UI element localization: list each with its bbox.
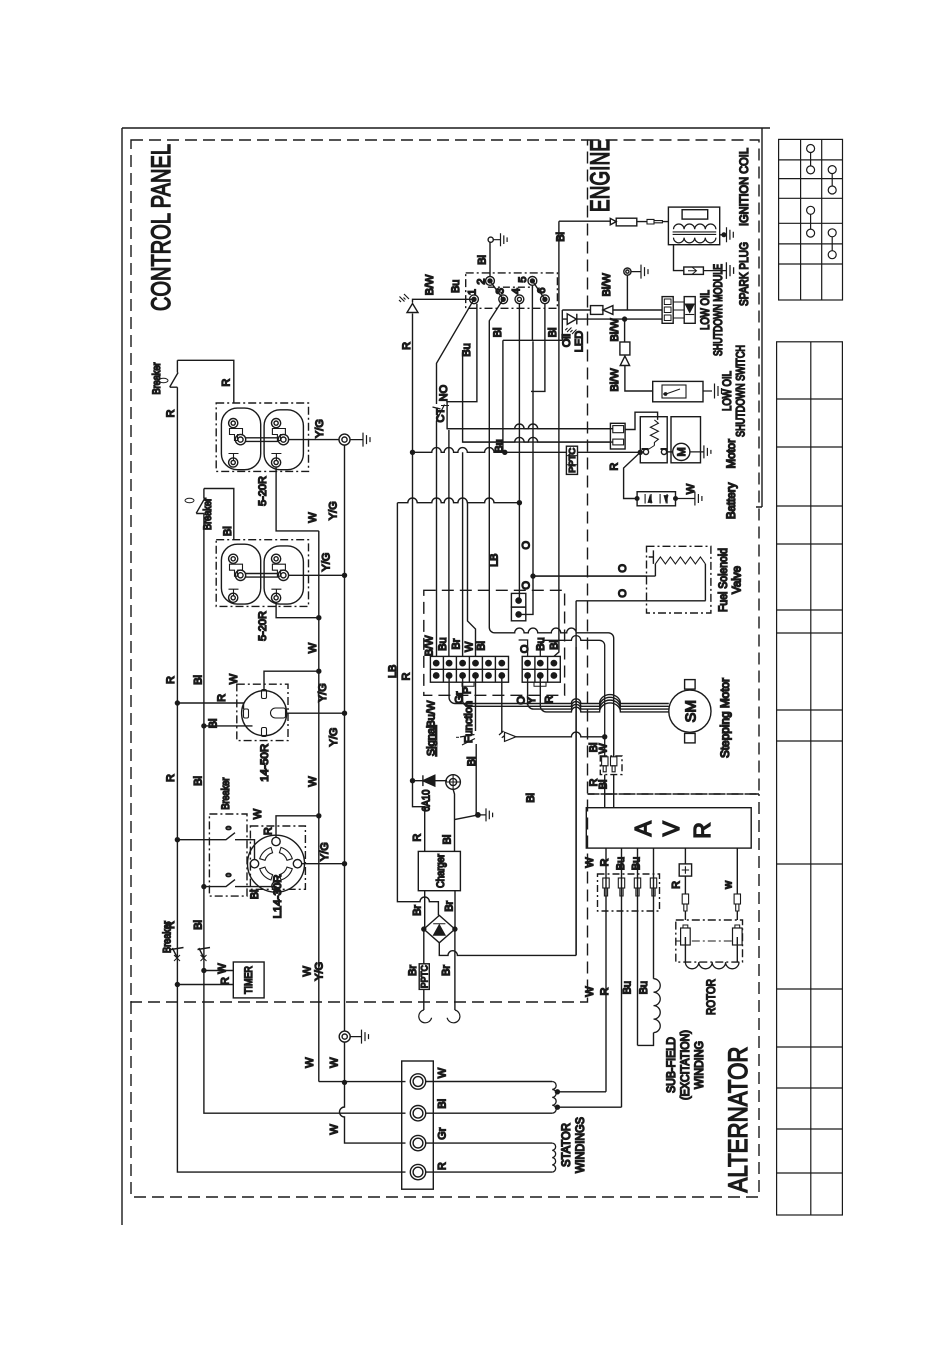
ground (alternator neutral bond) — [339, 1030, 368, 1044]
svg-text:W: W — [437, 1067, 449, 1078]
aux charge winding — [419, 1010, 460, 1023]
svg-text:R: R — [544, 695, 556, 703]
svg-text:W: W — [217, 963, 229, 974]
wire Br pair to aux winding — [424, 929, 455, 1010]
svg-text:W: W — [328, 1057, 340, 1068]
wire Function switch feed — [475, 676, 477, 732]
wire Bl pin5/6 to oil LED — [503, 285, 562, 391]
svg-text:O: O — [617, 564, 629, 573]
svg-text:6: 6 — [536, 287, 548, 293]
svg-text:Motor: Motor — [726, 439, 738, 469]
wire R through breaker to L14-30R — [177, 840, 254, 860]
wire Bu2 branch to engine plug (upper) — [447, 402, 610, 429]
svg-text:CT: CT — [435, 408, 447, 423]
svg-text:Br: Br — [411, 905, 423, 916]
indicator lamp (B/W pilot) — [399, 294, 418, 313]
rotor fuses — [679, 848, 740, 920]
svg-text:W: W — [685, 483, 697, 494]
svg-text:Br: Br — [444, 900, 456, 911]
revision table top right — [779, 139, 843, 300]
svg-text:(EXCITATION): (EXCITATION) — [680, 1030, 692, 1100]
wire R battery to relay contact — [624, 452, 641, 498]
svg-text:Breaker: Breaker — [151, 362, 163, 394]
W/R taps to stator coil — [557, 1092, 622, 1107]
svg-text:LOW OIL: LOW OIL — [700, 290, 712, 330]
svg-text:M: M — [676, 447, 688, 456]
fuse box (4 bullet fuses) — [598, 874, 660, 911]
oil signal diode — [562, 306, 662, 341]
svg-text:Function: Function — [463, 701, 475, 743]
wire R from lamp down — [413, 314, 425, 852]
ground (ignition coil) — [720, 227, 734, 242]
svg-text:R: R — [437, 1162, 449, 1170]
wire Bu from CT down to Signal connector — [436, 421, 438, 657]
svg-text:IGNITION COIL: IGNITION COIL — [739, 147, 751, 226]
svg-text:Gr: Gr — [437, 1127, 449, 1140]
svg-text:R: R — [609, 463, 621, 471]
svg-text:NO: NO — [438, 384, 450, 401]
ground (motor) — [690, 445, 711, 458]
svg-text:Stepping Motor: Stepping Motor — [720, 678, 732, 758]
svg-text:O: O — [519, 644, 531, 653]
wire R to engine relay (with PPTC) — [413, 448, 641, 453]
svg-text:Bu/W: Bu/W — [426, 700, 438, 728]
LED (charge) — [499, 731, 607, 741]
wire Bl bus into alternator — [204, 958, 406, 1113]
svg-text:R: R — [599, 987, 611, 995]
wire NO contact — [446, 304, 477, 402]
wire W recept2 to W bus — [276, 602, 319, 617]
wire to engine plug (lower) — [463, 350, 611, 442]
wire Y/G bus — [344, 445, 346, 1031]
oil LED — [562, 314, 662, 334]
svg-text:ROTOR: ROTOR — [706, 979, 718, 1015]
svg-text:5: 5 — [517, 276, 529, 282]
svg-text:Bl: Bl — [193, 920, 205, 930]
wire Y/G 14-50R to bus — [286, 712, 345, 714]
svg-text:6A10: 6A10 — [421, 790, 433, 812]
wire W to L14-30R — [276, 816, 319, 838]
svg-text:Y/G: Y/G — [328, 728, 340, 747]
svg-text:W: W — [252, 808, 264, 819]
svg-text:Bl: Bl — [477, 255, 489, 265]
ground (battery) — [676, 492, 702, 506]
wire Bl pin2 to ground — [489, 242, 491, 277]
low oil shutdown switch — [653, 381, 722, 401]
wire R to 14-50R — [177, 703, 243, 709]
svg-text:Bu: Bu — [450, 280, 462, 293]
breaker dual (for L14-30R) — [209, 814, 247, 896]
svg-text:W: W — [228, 673, 240, 684]
wire solenoid pin2 via Bl riser — [521, 341, 646, 614]
wire R feed to receptacle 1 — [177, 360, 233, 403]
ignition coil — [668, 207, 719, 245]
svg-text:Fuel Solenoid: Fuel Solenoid — [718, 548, 730, 612]
function switch — [455, 735, 476, 815]
svg-text:14-50R: 14-50R — [259, 744, 271, 782]
6A10 diode — [411, 775, 448, 786]
wires charger to bridge — [425, 891, 455, 929]
wire Y/G recept2 to Y/G bus — [289, 574, 345, 576]
svg-text:W: W — [307, 642, 319, 653]
svg-text:W: W — [304, 1057, 316, 1068]
svg-text:Bl: Bl — [193, 675, 205, 685]
svg-text:LB: LB — [489, 553, 501, 566]
ENGINE dashed section box — [588, 140, 760, 794]
svg-text:Breaker: Breaker — [162, 921, 174, 953]
svg-text:R: R — [671, 881, 683, 889]
receptacle L14-30R — [248, 826, 306, 892]
wire W to 14-50R — [264, 671, 319, 689]
svg-text:Bl: Bl — [437, 1099, 449, 1109]
svg-text:O: O — [521, 581, 533, 590]
svg-text:Signal: Signal — [426, 726, 438, 757]
svg-text:Bl: Bl — [525, 793, 537, 803]
wire Bl to 14-50R — [204, 725, 253, 727]
svg-text:Bl/W: Bl/W — [609, 318, 621, 342]
breaker CB2 (Bl feed) — [185, 489, 205, 514]
wire Y/G bond to W line and Gr terminal — [340, 1042, 406, 1143]
svg-text:R: R — [221, 379, 233, 387]
key switch connector (6-pin) — [466, 273, 558, 308]
svg-text:R: R — [165, 676, 177, 684]
ignition kill switch to ground — [455, 808, 493, 821]
svg-text:Gr: Gr — [454, 691, 466, 704]
svg-text:0: 0 — [226, 826, 233, 830]
svg-text:Br: Br — [407, 965, 419, 976]
svg-text:4: 4 — [511, 288, 523, 294]
stator terminal block — [402, 1061, 434, 1189]
svg-text:Bl: Bl — [208, 719, 220, 729]
wire R bus — [176, 387, 178, 958]
svg-text:2: 2 — [476, 278, 488, 284]
svg-text:W: W — [584, 857, 596, 868]
svg-text:TIMER: TIMER — [243, 966, 255, 994]
svg-text:0: 0 — [226, 873, 233, 877]
svg-text:R: R — [165, 774, 177, 782]
B/W pigtail ground — [624, 265, 648, 310]
svg-text:Y/G: Y/G — [319, 842, 331, 861]
svg-text:R: R — [412, 834, 424, 842]
svg-text:Charger: Charger — [435, 854, 447, 888]
sub-field winding — [638, 979, 661, 1046]
meter output wires — [606, 848, 654, 1107]
wire R bus into alternator — [177, 958, 405, 1172]
wire R to timer — [177, 984, 233, 986]
starter motor — [667, 417, 701, 463]
wire W bus — [318, 531, 320, 1082]
wire Bl fuse holder to charger — [453, 789, 454, 851]
CONTROL PANEL dashed section box — [131, 140, 588, 1002]
svg-text:SHUTDOWN SWITCH: SHUTDOWN SWITCH — [736, 345, 748, 437]
svg-text:Bl: Bl — [547, 328, 559, 338]
fuse holder — [446, 775, 461, 790]
svg-text:5-20R: 5-20R — [257, 476, 269, 506]
svg-text:R: R — [216, 694, 228, 702]
svg-text:Oil: Oil — [561, 334, 573, 347]
svg-text:LED: LED — [574, 331, 586, 352]
svg-text:SM: SM — [683, 700, 700, 723]
engine/alternator fuse pair — [600, 756, 622, 808]
svg-text:Bu: Bu — [638, 981, 650, 994]
wire bridge bottom DC return — [439, 647, 576, 955]
svg-text:LB: LB — [387, 665, 399, 678]
svg-text:W: W — [584, 986, 596, 997]
wire solenoid lower run — [576, 600, 706, 602]
svg-text:A: A — [630, 820, 656, 836]
svg-text:CONTROL PANEL: CONTROL PANEL — [146, 144, 176, 311]
CT switch lever — [433, 405, 445, 421]
revision marks (circles) — [807, 145, 837, 259]
kill wire with noise suppressor — [559, 218, 669, 226]
wires: connector risers — [519, 636, 605, 757]
wire charge LED from Signal pin — [501, 676, 503, 733]
wire Bl from pin3 down to Signal — [489, 299, 613, 955]
breaker CB1 (top, R feed) — [159, 360, 178, 387]
low oil shutdown module — [673, 297, 695, 324]
svg-text:SHUTDOWN MODULE: SHUTDOWN MODULE — [713, 264, 725, 356]
wire Bl kill from coil down to connector — [554, 221, 559, 656]
svg-text:Bl: Bl — [442, 835, 454, 845]
svg-text:Bu: Bu — [622, 981, 634, 994]
stepping motor bundle (4 wires) — [449, 676, 669, 712]
rotor — [676, 920, 743, 969]
svg-text:W: W — [328, 1124, 340, 1135]
fuel solenoid connector (2-pin) — [511, 593, 525, 620]
spark plug — [674, 245, 734, 279]
svg-text:Br: Br — [451, 638, 463, 649]
stator winding coils — [426, 1082, 556, 1173]
ground (main panel) — [339, 433, 370, 447]
wire W from recept1 to W bus — [276, 467, 319, 531]
fuel solenoid valve — [533, 546, 711, 613]
svg-text:R: R — [401, 342, 413, 350]
svg-text:V: V — [658, 820, 684, 836]
svg-text:PPTC: PPTC — [420, 965, 431, 988]
low oil shutdown module connector — [662, 297, 673, 324]
svg-text:ALTERNATOR: ALTERNATOR — [723, 1047, 753, 1193]
svg-text:R: R — [220, 977, 232, 985]
ALTERNATOR dashed section box — [131, 794, 759, 1197]
svg-text:5-20R: 5-20R — [257, 611, 269, 641]
svg-text:Valve: Valve — [732, 566, 744, 594]
AVR meter box — [586, 808, 751, 848]
svg-text:Bl: Bl — [466, 757, 478, 767]
wire Y/G L14-30R to bus — [302, 863, 345, 865]
svg-text:w: w — [723, 881, 735, 890]
svg-text:L14-30R: L14-30R — [272, 874, 284, 918]
svg-text:Bl: Bl — [555, 232, 567, 242]
receptacle 5-20R duplex #2 — [216, 540, 308, 607]
svg-text:Y/G: Y/G — [321, 553, 333, 572]
svg-text:Bu: Bu — [494, 439, 506, 452]
svg-text:R: R — [263, 827, 275, 835]
svg-text:Bu: Bu — [437, 637, 449, 650]
svg-text:Bu: Bu — [631, 857, 643, 870]
svg-text:SPARK PLUG: SPARK PLUG — [739, 242, 751, 306]
svg-text:Y/G: Y/G — [314, 419, 326, 438]
bridge rectifier — [422, 915, 457, 942]
wire LB: pin4 down, bus to charger area — [397, 304, 519, 916]
svg-text:Battery: Battery — [726, 482, 738, 519]
receptacle 5-20R duplex #1 — [216, 403, 308, 471]
svg-text:O: O — [617, 589, 629, 598]
TIMER box — [233, 962, 264, 998]
wire CT common (diagonal from pin1) — [437, 299, 475, 404]
svg-text:Bl/W: Bl/W — [609, 368, 621, 392]
svg-text:SUB-FIELD: SUB-FIELD — [666, 1037, 678, 1093]
svg-text:Bl/W: Bl/W — [601, 273, 613, 297]
svg-text:Bl: Bl — [598, 780, 610, 790]
stepping motor — [669, 680, 711, 743]
svg-text:W: W — [598, 743, 610, 754]
svg-text:Br: Br — [441, 965, 453, 976]
svg-text:Bl: Bl — [492, 328, 504, 338]
svg-text:B/W: B/W — [424, 635, 436, 656]
battery — [635, 492, 677, 506]
svg-text:LOW OIL: LOW OIL — [722, 371, 734, 411]
PPTC (charger) — [419, 964, 429, 990]
receptacle 14-50R — [237, 684, 288, 740]
svg-text:W: W — [307, 512, 319, 523]
svg-text:B/W: B/W — [424, 274, 436, 295]
starter relay — [625, 412, 667, 463]
svg-text:Bu: Bu — [615, 857, 627, 870]
svg-text:O: O — [521, 540, 533, 549]
wire Bl bus — [203, 514, 205, 959]
Charger box — [418, 851, 460, 890]
svg-text:WINDINGS: WINDINGS — [575, 1117, 587, 1173]
wire Bu pin2-row down to Signal — [449, 430, 476, 656]
title block table bottom right — [777, 342, 843, 1215]
starter connectors — [610, 423, 625, 449]
breaker pair (timer feed) with x marks — [171, 948, 210, 962]
wire Bl through breaker to L14-30R — [204, 887, 276, 891]
svg-text:ENGINE: ENGINE — [585, 139, 615, 212]
wire W to timer — [204, 970, 233, 972]
sheet border — [122, 128, 770, 1225]
Signal connector (2x6) — [430, 656, 508, 686]
svg-text:W: W — [464, 641, 476, 652]
svg-text:STATOR: STATOR — [561, 1123, 573, 1167]
svg-text:W: W — [302, 965, 314, 976]
svg-text:Bl: Bl — [249, 890, 261, 900]
svg-text:Y/G: Y/G — [317, 683, 329, 702]
wire Bl feed to receptacle 2 — [204, 489, 234, 540]
svg-text:R: R — [401, 672, 413, 680]
svg-text:3: 3 — [495, 288, 507, 294]
PPTC fuse — [566, 446, 577, 474]
svg-text:Y/G: Y/G — [327, 501, 339, 520]
zener + diode to oil switch — [620, 319, 653, 391]
svg-text:R: R — [599, 858, 611, 866]
wire W bus to stator terminal — [319, 1081, 406, 1083]
wire Y/G recept1 to ground — [289, 439, 339, 441]
svg-text:W: W — [307, 776, 319, 787]
svg-text:Breaker: Breaker — [220, 777, 232, 809]
svg-text:R: R — [689, 822, 715, 839]
svg-text:Y/G: Y/G — [314, 962, 326, 981]
svg-text:1: 1 — [467, 289, 479, 295]
svg-text:Bl: Bl — [476, 641, 488, 651]
svg-text:Bl: Bl — [193, 776, 205, 786]
svg-text:Y: Y — [526, 696, 538, 704]
wires to starter connectors — [447, 429, 613, 442]
svg-text:PPTC: PPTC — [567, 448, 577, 473]
connector (2x3) engine side — [522, 656, 560, 686]
svg-text:WINDING: WINDING — [694, 1041, 706, 1089]
wire B/W lamp to key pin 1 — [413, 299, 475, 302]
svg-text:Bu: Bu — [461, 343, 473, 356]
dashed box around connectors — [424, 590, 565, 695]
svg-text:Bl: Bl — [222, 526, 234, 536]
ground (key switch) — [488, 233, 507, 246]
svg-text:R: R — [165, 409, 177, 417]
